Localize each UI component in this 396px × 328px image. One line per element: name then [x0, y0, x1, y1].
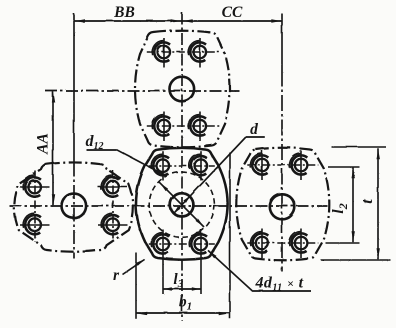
- left flange outline (phantom): [14, 162, 133, 251]
- d leader line and diameter arrows: [173, 137, 264, 213]
- hole T1 vertical tick: [163, 38, 165, 68]
- dimension b1 extension line left: [135, 252, 137, 318]
- hole T1: [152, 40, 170, 61]
- hole C2 vertical tick: [200, 151, 202, 180]
- hole R4: [289, 231, 307, 252]
- hole T2: [188, 40, 206, 61]
- top flange center hole: [169, 76, 194, 101]
- central flange outline (solid): [136, 147, 228, 259]
- hole T4: [188, 114, 206, 135]
- top flange outline (phantom): [135, 30, 230, 147]
- dimension t line: [376, 148, 379, 259]
- hole R1: [250, 153, 268, 174]
- hole C4 vertical tick: [200, 229, 202, 257]
- hole L2: [101, 175, 119, 196]
- svg-text:CC: CC: [222, 4, 243, 21]
- main horizontal centerline: [9, 205, 327, 207]
- right flange vertical centerline / CC extension line: [281, 13, 283, 70]
- hole C1 vertical tick: [162, 151, 164, 180]
- svg-text:BB: BB: [113, 4, 135, 21]
- d12 diameter line with arrows: [159, 182, 204, 227]
- hole L1: [23, 175, 41, 196]
- left flange left hole column centerline: [34, 170, 36, 241]
- central flange lower hole row centerline: [148, 243, 214, 245]
- central flange upper hole row centerline: [148, 165, 214, 167]
- hole T2 vertical tick: [199, 38, 201, 68]
- right flange upper hole row centerline: [247, 164, 318, 166]
- hole R1 vertical tick: [261, 150, 263, 180]
- main vertical centerline: [181, 12, 183, 320]
- dimension b1 extension line right: [229, 152, 231, 318]
- dimension l2 extension line bottom: [325, 242, 359, 244]
- hole T3: [152, 114, 170, 135]
- hole C1: [151, 154, 169, 175]
- dimension BB line: [74, 19, 182, 22]
- hole R2 vertical tick: [300, 150, 302, 180]
- hole L4: [101, 213, 119, 234]
- left flange right hole column centerline: [112, 170, 114, 241]
- left flange center hole: [61, 193, 86, 218]
- hole C2: [189, 154, 207, 175]
- hole L3 horizontal tick: [20, 224, 50, 226]
- svg-text:r: r: [113, 267, 120, 284]
- top flange lower hole row centerline: [146, 125, 220, 127]
- dimension l2 extension line top: [328, 166, 360, 168]
- dimension t extension line top: [331, 146, 386, 148]
- top flange horizontal centerline: [45, 90, 239, 92]
- dimension l2 line: [351, 167, 354, 242]
- dimension l3 line: [162, 287, 200, 291]
- right flange center hole: [269, 194, 294, 219]
- hole L2 horizontal tick: [98, 186, 128, 188]
- central flange center hole: [170, 193, 193, 216]
- r leader line: [122, 258, 145, 274]
- right flange lower hole row centerline: [247, 242, 318, 244]
- hole R4 vertical tick: [300, 228, 302, 258]
- hole L3: [23, 213, 41, 234]
- hole R3: [250, 231, 268, 252]
- d12 leader line: [86, 149, 165, 175]
- hole L1 horizontal tick: [20, 186, 50, 188]
- dimension l3 extension line left: [162, 257, 164, 294]
- 4d11xt leader line: [208, 250, 311, 291]
- hole L4 horizontal tick: [98, 224, 128, 226]
- hole R2: [289, 153, 307, 174]
- dimension b1 line: [136, 311, 229, 314]
- dimension CC line: [181, 19, 281, 22]
- hole C3: [151, 232, 169, 253]
- left flange vertical centerline / BB extension line: [73, 13, 75, 162]
- hole T4 vertical tick: [199, 111, 201, 141]
- hole C4: [189, 232, 207, 253]
- svg-text:AA: AA: [35, 133, 52, 155]
- dimension AA line: [51, 91, 54, 205]
- central flange pitch circle d12 (dashed): [149, 172, 214, 237]
- svg-text:t: t: [359, 199, 376, 204]
- hole C3 vertical tick: [162, 229, 164, 257]
- dimension t extension line bottom: [320, 259, 390, 261]
- svg-text:d: d: [250, 121, 258, 138]
- top flange upper hole row centerline: [146, 51, 220, 53]
- dimension l3 extension line right: [200, 257, 202, 294]
- hole R3 vertical tick: [261, 228, 263, 258]
- right flange outline (phantom): [236, 147, 329, 260]
- hole T3 vertical tick: [163, 111, 165, 141]
